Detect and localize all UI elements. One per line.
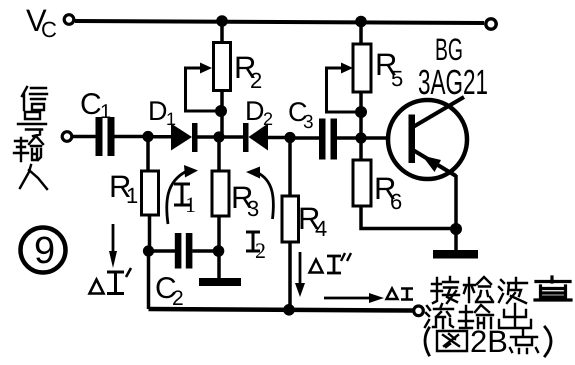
wire node D to R6 — [359, 138, 363, 160]
svg-text:C: C — [41, 17, 57, 42]
svg-text:4: 4 — [315, 216, 327, 241]
node D base — [355, 132, 366, 143]
wire R4 to rail — [288, 242, 292, 309]
node rail-R5 — [355, 16, 367, 28]
node C — [284, 132, 295, 143]
char chu1 out — [499, 304, 531, 328]
wire C1 to node A — [115, 135, 149, 139]
svg-text:3: 3 — [247, 196, 259, 221]
label delta I prime — [90, 268, 132, 294]
node E — [143, 245, 154, 256]
ground mid stem — [217, 251, 221, 279]
label I2 — [246, 232, 266, 263]
label R4 — [298, 201, 327, 241]
char zhi2 straight bold — [535, 277, 571, 300]
svg-text:2: 2 — [172, 287, 184, 310]
node A — [142, 131, 153, 142]
ground right stem — [454, 229, 458, 251]
paren left — [425, 328, 429, 355]
arrow delta I — [324, 293, 384, 303]
char bo1 wave — [499, 278, 527, 303]
capacitor C3 — [319, 119, 337, 160]
wire R6 to emitter node — [361, 206, 456, 229]
wire R2 bottom to node B — [220, 90, 224, 134]
wire input to C1 — [72, 135, 96, 139]
text output CJK line1 jie jian bo zhi — [432, 277, 572, 303]
wire D1 to node B — [197, 135, 219, 139]
label I1 — [174, 184, 196, 217]
capacitor C1 — [96, 117, 115, 156]
svg-text:3AG21: 3AG21 — [418, 63, 488, 102]
wire node E to C2 — [149, 249, 176, 253]
resistor R4 — [282, 196, 299, 242]
transistor Q1 collector line — [413, 97, 464, 127]
arrow delta I prime — [109, 224, 117, 268]
svg-text:5: 5 — [391, 66, 403, 91]
arrow adjustable R5 — [327, 63, 362, 113]
label 3AG21 — [418, 63, 488, 102]
label delta I doubleprime — [310, 253, 352, 273]
resistor R6 — [353, 160, 371, 206]
wire top rail — [75, 21, 484, 23]
wire node B to D2 — [219, 135, 243, 139]
terminal Vc — [64, 15, 74, 25]
label D1 — [148, 96, 176, 129]
label R6 — [374, 171, 402, 214]
wire R5 bottom to node D — [359, 92, 363, 134]
wire rail to R5 — [359, 22, 363, 45]
transistor Q1 base bar — [409, 115, 416, 164]
svg-text:1: 1 — [100, 101, 111, 123]
wire node C to C3 — [290, 136, 319, 140]
wire node B to R3 — [217, 142, 221, 171]
node R5 bottom — [355, 106, 367, 118]
svg-text:1: 1 — [126, 183, 138, 208]
char xin4 believe — [22, 87, 47, 110]
label Vc — [26, 3, 57, 42]
label BG — [435, 32, 463, 67]
transistor Q1 emitter arrow — [422, 156, 441, 173]
label D2 — [245, 96, 273, 129]
wire rail to R2 — [220, 21, 224, 43]
char dian3 point — [510, 330, 538, 353]
resistor R2 — [214, 43, 231, 91]
char jie1 connect — [432, 277, 460, 303]
svg-text:C: C — [80, 88, 102, 121]
wire node A to D1 — [148, 135, 171, 139]
wire C2 to node F — [192, 249, 219, 253]
svg-text:2B: 2B — [470, 324, 508, 359]
label delta I — [387, 289, 414, 300]
terminal output — [414, 306, 424, 316]
wire node A to R1 — [146, 137, 150, 171]
node rail-R2 — [216, 15, 228, 27]
svg-text:D: D — [148, 96, 168, 126]
label R3 — [231, 180, 259, 221]
wire bottom rail — [149, 309, 415, 311]
node B — [213, 131, 224, 142]
terminal signal input — [62, 132, 72, 142]
node F — [213, 245, 225, 257]
label R5 — [375, 47, 403, 91]
wire emitter down — [454, 175, 458, 229]
transistor Q1 circle — [388, 100, 467, 179]
char hao4 number — [18, 112, 46, 136]
char ru4 enter — [20, 165, 47, 189]
terminal top right — [486, 19, 496, 29]
diode D2 — [243, 123, 268, 152]
text signal input vertical CJK — [14, 87, 47, 189]
ground mid bar — [199, 278, 241, 286]
capacitor C2 — [175, 233, 193, 269]
arrow delta I doubleprime — [295, 252, 305, 297]
diode D1 — [171, 123, 198, 152]
svg-text:9: 9 — [34, 230, 55, 272]
arrow I2 — [246, 167, 273, 220]
svg-text:D: D — [245, 96, 265, 126]
char tu2 figure — [437, 331, 467, 351]
resistor R5 — [353, 44, 371, 92]
paren right — [545, 327, 551, 356]
svg-text:BG: BG — [435, 32, 463, 67]
wire R1 bottom to node E — [148, 215, 152, 251]
svg-text:6: 6 — [390, 189, 402, 214]
svg-text:2: 2 — [255, 238, 266, 263]
label C2 — [155, 272, 184, 310]
char liu2 flow — [425, 304, 453, 328]
text output CJK line2 liu shu chu — [425, 304, 531, 328]
arrow I1 — [167, 165, 198, 224]
svg-text:3: 3 — [303, 112, 314, 133]
resistor R3 — [212, 171, 229, 216]
label R2 — [234, 50, 262, 93]
text output CJK line3 paren tu 2B dian paren — [425, 324, 551, 359]
ground right bar — [433, 250, 478, 259]
wire C3 to node D — [337, 136, 361, 140]
svg-text:1: 1 — [185, 192, 196, 217]
figure number 9 — [21, 228, 66, 273]
label C3 — [288, 97, 314, 133]
wire node E down — [147, 251, 151, 309]
svg-text:2: 2 — [263, 109, 273, 129]
wire base — [366, 136, 409, 140]
transistor Q1 emitter line — [413, 150, 456, 176]
node rail-R4 — [283, 304, 295, 316]
char shu1 transport — [14, 136, 43, 161]
wire R3 to node F — [217, 216, 221, 251]
wire node C to R4 — [288, 138, 292, 196]
label R1 — [109, 169, 138, 208]
node emitter-ground — [450, 223, 462, 235]
svg-text:2: 2 — [250, 68, 262, 93]
resistor R1 — [142, 171, 159, 215]
label C1 — [80, 88, 111, 123]
svg-text:1: 1 — [166, 109, 176, 129]
char shu1 transport2 — [459, 305, 493, 328]
node R2 bottom — [215, 105, 227, 117]
char jian3 detect — [464, 277, 493, 302]
label 2B — [470, 324, 508, 359]
wire D2 to node C — [268, 136, 290, 140]
arrow adjustable R2 — [186, 63, 222, 112]
